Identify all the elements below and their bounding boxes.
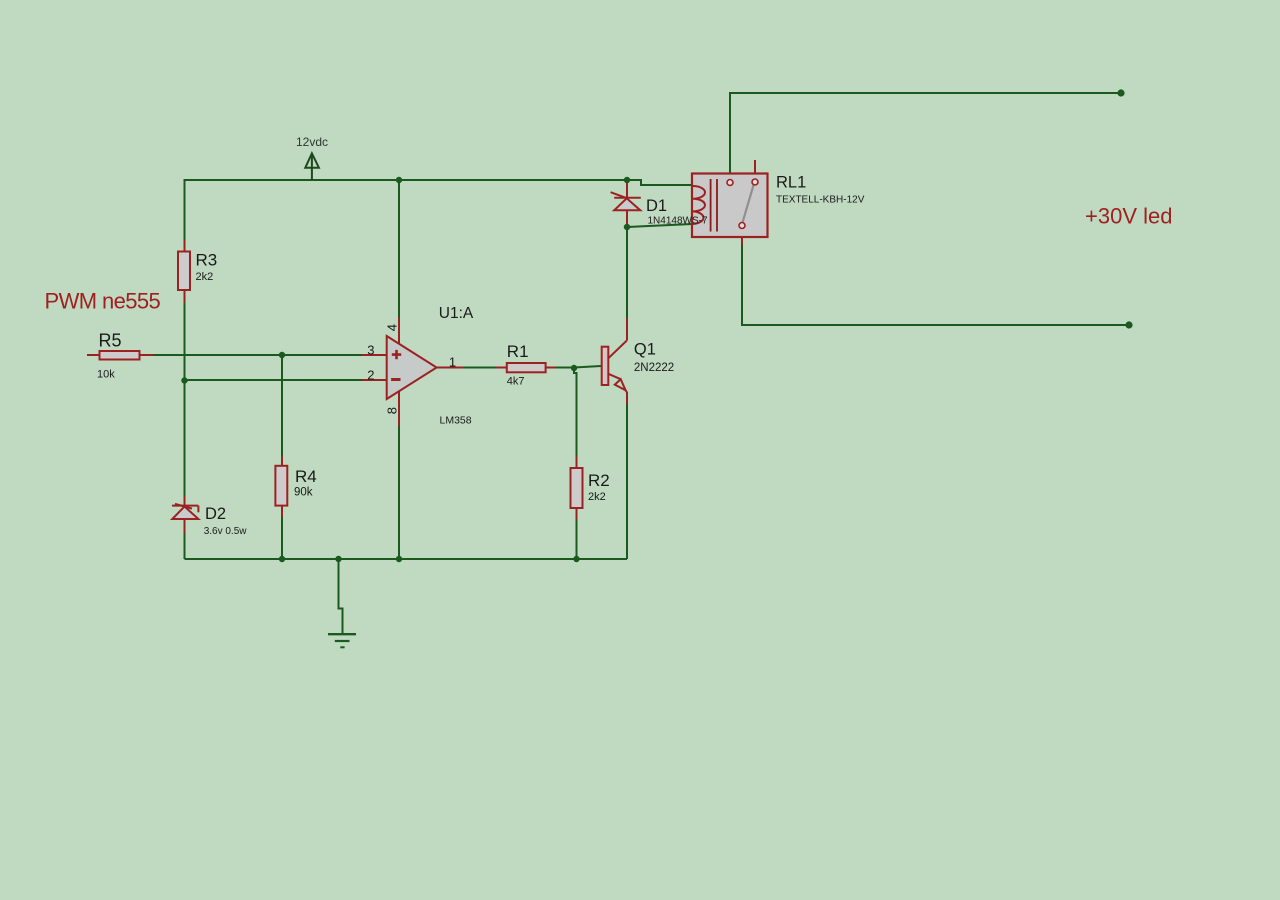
svg-text:4: 4 xyxy=(384,324,399,331)
svg-text:2k2: 2k2 xyxy=(196,271,214,283)
svg-text:D2: D2 xyxy=(205,505,226,523)
svg-text:1: 1 xyxy=(449,354,456,369)
svg-text:2N2222: 2N2222 xyxy=(634,362,674,374)
svg-text:2k2: 2k2 xyxy=(588,491,606,503)
svg-text:U1:A: U1:A xyxy=(439,305,474,322)
svg-text:LM358: LM358 xyxy=(440,415,472,427)
svg-text:8: 8 xyxy=(385,407,400,414)
svg-text:R3: R3 xyxy=(196,251,218,270)
svg-text:+30V led: +30V led xyxy=(1085,204,1172,229)
svg-text:3.6v 0.5w: 3.6v 0.5w xyxy=(204,526,248,537)
svg-text:4k7: 4k7 xyxy=(507,375,525,387)
svg-text:90k: 90k xyxy=(294,486,313,498)
svg-text:1N4148WS-7: 1N4148WS-7 xyxy=(648,216,708,227)
svg-text:R4: R4 xyxy=(295,467,317,486)
svg-text:3: 3 xyxy=(367,342,374,357)
svg-text:10k: 10k xyxy=(97,369,115,381)
svg-text:Q1: Q1 xyxy=(634,340,656,358)
svg-text:R2: R2 xyxy=(588,471,610,490)
svg-text:R5: R5 xyxy=(99,331,122,351)
svg-text:D1: D1 xyxy=(646,197,667,215)
svg-text:2: 2 xyxy=(367,368,374,383)
svg-text:R1: R1 xyxy=(507,342,529,361)
svg-text:RL1: RL1 xyxy=(776,173,806,191)
svg-text:TEXTELL-KBH-12V: TEXTELL-KBH-12V xyxy=(776,195,865,206)
svg-text:PWM ne555: PWM ne555 xyxy=(45,289,161,314)
svg-text:12vdc: 12vdc xyxy=(296,135,328,149)
